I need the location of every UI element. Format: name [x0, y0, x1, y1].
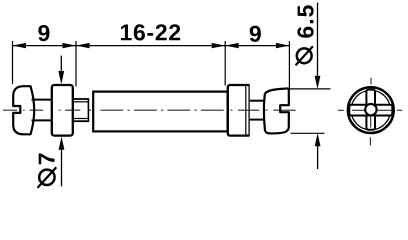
thread outer top	[74, 98, 88, 100]
left collar (flange)	[52, 85, 73, 136]
end view center line inside slot horizontal right	[377, 109, 392, 111]
witness line shared 9/16-22	[75, 41, 77, 87]
arrow left of dim 16-22	[76, 43, 90, 48]
end view crosshair vertical bottom tick	[369, 137, 371, 145]
end view center hub circle	[365, 104, 376, 115]
shaft body	[93, 92, 227, 132]
thread end vertical	[87, 98, 89, 122]
thread minor top	[74, 101, 88, 103]
end view horizontal slot	[349, 105, 392, 116]
witness line left (9)	[12, 41, 14, 84]
thread minor bottom	[74, 118, 88, 120]
witness line right 9	[288, 41, 290, 89]
end view crosshair horizontal left tick	[338, 109, 344, 111]
thread outer bottom	[74, 120, 88, 122]
arrow right of dim 9 at shared line	[63, 43, 77, 48]
label 9 left	[38, 25, 49, 41]
label 16-22	[121, 24, 180, 40]
left neck line top	[32, 99, 52, 101]
end view center line inside slot vertical	[370, 116, 372, 128]
centerline of bolt axis	[3, 109, 296, 111]
end view outer circle	[348, 87, 394, 133]
arrow right of right dim 9	[276, 43, 290, 48]
arrow left of dim 9	[13, 43, 27, 48]
label diameter 7 symbol	[38, 167, 57, 188]
diameter 6.5 top extension line	[288, 88, 331, 90]
end view inner circle	[351, 90, 390, 129]
label 9 right	[250, 26, 261, 42]
label diameter 6.5 digits	[297, 5, 313, 37]
left neck line bottom	[32, 119, 52, 121]
label diameter 7 digit	[39, 154, 55, 165]
arrow left of right dim 9	[225, 43, 239, 48]
right neck line top	[250, 100, 265, 102]
diameter 6.5 down arrow	[317, 3, 319, 83]
end view crosshair horizontal right tick	[397, 109, 402, 111]
right collar right edge	[248, 84, 250, 136]
right collar	[228, 85, 249, 136]
diameter 6.5 up arrow	[317, 139, 319, 169]
right head (slotted, dome facing right)	[264, 88, 289, 133]
end view crosshair vertical top tick	[370, 78, 372, 85]
end view vertical slot	[366, 90, 375, 130]
diameter 6.5 bottom extension line	[291, 132, 325, 134]
diameter 7 leader up arrow	[61, 142, 63, 186]
dimension line (9 / 16-22 / 9)	[13, 45, 290, 47]
left head (slotted screw head, dome facing left)	[13, 86, 34, 134]
end view center line inside slot horizontal left	[352, 109, 366, 111]
right collar inner edge line	[245, 86, 247, 135]
witness line shared 16-22/9	[224, 41, 226, 86]
arrow right of dim 16-22	[212, 43, 226, 48]
right neck line bottom	[250, 119, 265, 121]
diameter 7 leader down arrow	[60, 56, 62, 78]
label diameter 6.5 symbol	[296, 46, 313, 65]
